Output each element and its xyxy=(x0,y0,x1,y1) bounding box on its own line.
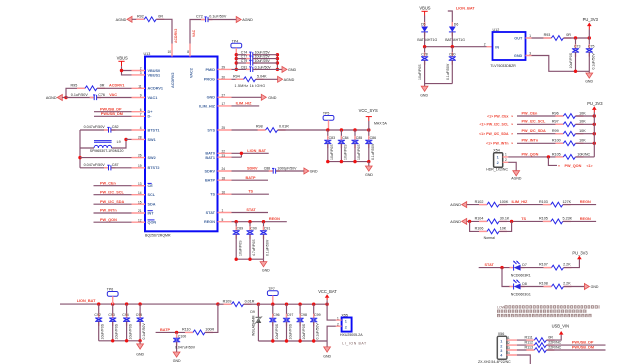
svg-text:<1> PW_CEx: <1> PW_CEx xyxy=(487,114,508,118)
svg-text:BTST2: BTST2 xyxy=(148,166,160,170)
svg-text:LOW: LOW xyxy=(497,306,506,310)
svg-text:1: 1 xyxy=(222,209,224,213)
capacitor C90 4.7uF/P0S xyxy=(246,222,256,260)
svg-text:R96: R96 xyxy=(552,111,559,115)
svg-text:AGND: AGND xyxy=(450,220,461,224)
net STAT (LED) xyxy=(479,263,510,269)
wire REGN cap bottom rail xyxy=(235,258,264,261)
svg-text:2: 2 xyxy=(500,344,502,348)
svg-text:<1> PW_I2C_SDA: <1> PW_I2C_SDA xyxy=(479,132,509,136)
svg-text:5: 5 xyxy=(222,218,224,222)
svg-text:6: 6 xyxy=(140,108,142,112)
svg-text:0.1uF/50V: 0.1uF/50V xyxy=(446,63,450,80)
svg-text:PU_3V3: PU_3V3 xyxy=(583,17,599,22)
svg-text:0R: 0R xyxy=(566,33,571,37)
capacitor C94 10uF/P0S xyxy=(122,304,132,341)
svg-text:R109: R109 xyxy=(223,299,232,303)
resistor R108 2.2K xyxy=(539,282,584,289)
svg-text:»: » xyxy=(511,123,513,127)
ground GND (SYS caps) xyxy=(365,162,373,177)
wire PMID cap bank verticals xyxy=(235,53,279,71)
svg-text:NCD0603G1: NCD0603G1 xyxy=(511,292,531,296)
svg-text:25: 25 xyxy=(222,126,226,130)
svg-text:0.01R: 0.01R xyxy=(279,124,289,128)
text frequency note xyxy=(235,84,266,88)
svg-text:GND: GND xyxy=(310,169,318,173)
svg-text:2: 2 xyxy=(508,341,510,345)
svg-text:BAT54HT1G: BAT54HT1G xyxy=(417,38,437,42)
diode D9 WSLADHNM xyxy=(250,304,262,341)
svg-text:28: 28 xyxy=(138,136,142,140)
svg-text:10K: 10K xyxy=(579,139,586,143)
svg-text:SDRV: SDRV xyxy=(205,169,216,173)
svg-text:PW_QON: PW_QON xyxy=(522,152,539,156)
svg-text:26: 26 xyxy=(138,154,142,158)
resistor R99 10K / net PW_I2C_SDA xyxy=(517,129,596,136)
capacitor C91 0.1uF/50V xyxy=(260,222,270,260)
svg-text:C95: C95 xyxy=(136,313,142,317)
svg-text:1000pF/50V: 1000pF/50V xyxy=(277,167,297,171)
svg-text:L9: L9 xyxy=(117,140,121,144)
capacitor C97 10uF/P0S xyxy=(283,304,293,341)
text note line 2 xyxy=(497,310,588,313)
IC U12 TLV76033DBZR xyxy=(490,28,531,68)
svg-text:30.1K: 30.1K xyxy=(500,217,510,221)
wire net ACDRV2 xyxy=(156,19,178,43)
svg-text:ZX-XH2.54-4P22/NC: ZX-XH2.54-4P22/NC xyxy=(478,360,511,364)
svg-text:X56: X56 xyxy=(498,332,505,336)
resistor R104 30.1K / net TS xyxy=(475,217,551,224)
svg-text:R103: R103 xyxy=(539,200,548,204)
svg-text:GND: GND xyxy=(173,359,181,363)
svg-text:C89: C89 xyxy=(237,227,243,231)
svg-text:LI_ION BAT: LI_ION BAT xyxy=(342,342,367,346)
IC U13 top pin stubs (pins 10, 8) xyxy=(167,44,190,57)
svg-text:10uF/P0S: 10uF/P0S xyxy=(238,240,242,256)
svg-text:SPM6530T-1R0M120: SPM6530T-1R0M120 xyxy=(90,149,124,153)
net PWUSB_DP xyxy=(94,108,132,112)
net PW_INTn xyxy=(94,209,132,213)
ground AGND (C72) xyxy=(236,17,253,23)
ground GND (D8) xyxy=(584,284,598,290)
svg-text:PU_3V3: PU_3V3 xyxy=(587,101,603,106)
svg-text:PWUSB_DM: PWUSB_DM xyxy=(101,112,123,116)
svg-text:VBUS0: VBUS0 xyxy=(148,69,161,73)
capacitor C98 10uF/P0S xyxy=(297,304,307,341)
svg-text:R104: R104 xyxy=(475,217,484,221)
svg-text:ILIM_HIZ: ILIM_HIZ xyxy=(236,102,253,106)
capacitor C92 10uF/P0S xyxy=(94,304,104,341)
svg-text:REGN: REGN xyxy=(580,217,591,221)
svg-text:TS: TS xyxy=(248,190,253,194)
svg-text:BAT54HT1G: BAT54HT1G xyxy=(445,38,465,42)
ground GND (C100) xyxy=(173,352,181,363)
svg-text:C72: C72 xyxy=(196,15,203,19)
svg-text:C98: C98 xyxy=(301,313,307,317)
svg-text:10uF/P0S: 10uF/P0S xyxy=(101,323,105,339)
svg-text:10K: 10K xyxy=(579,111,586,115)
svg-text:0R: 0R xyxy=(100,83,105,87)
svg-text:BATP: BATP xyxy=(160,328,171,332)
offpage PW_QON out xyxy=(548,157,592,168)
offpage PW_I2C_SCL xyxy=(480,123,514,127)
svg-text:24: 24 xyxy=(222,167,226,171)
inductor L9 SPM6530T-1R0M120 xyxy=(80,139,126,153)
net PW_I2C_SCL xyxy=(94,190,132,194)
ground GND (bat caps) xyxy=(323,341,331,359)
svg-text:10K/NC: 10K/NC xyxy=(577,152,590,156)
svg-text:1: 1 xyxy=(337,316,339,320)
svg-text:13: 13 xyxy=(138,182,142,186)
svg-text:U13: U13 xyxy=(144,52,151,56)
svg-text:R108: R108 xyxy=(539,282,548,286)
svg-text:PW_I2C_SDA: PW_I2C_SDA xyxy=(522,129,547,133)
svg-text:R97: R97 xyxy=(552,120,559,124)
svg-text:R110: R110 xyxy=(182,328,191,332)
svg-text:3: 3 xyxy=(508,346,510,350)
svg-text:GND: GND xyxy=(365,173,373,177)
IC U13 top pin names (rotated) xyxy=(171,68,193,88)
IC U13 left pin stubs xyxy=(132,71,146,223)
svg-text:9: 9 xyxy=(140,94,142,98)
capacitor C82 0.047uF/50V (BTST1) xyxy=(80,125,132,132)
svg-text:100K: 100K xyxy=(500,200,509,204)
svg-text:IN: IN xyxy=(495,45,499,49)
svg-text:C96: C96 xyxy=(273,313,279,317)
connector X56 ZX-XH2.54-4P22/NC xyxy=(478,332,517,364)
svg-text:PW_I2C_SDA: PW_I2C_SDA xyxy=(100,200,125,204)
svg-text:AGND: AGND xyxy=(46,96,57,100)
resistor R105 10K/NC / net PW_QON xyxy=(508,152,594,159)
svg-text:19: 19 xyxy=(138,164,142,168)
wire X55 pin2 xyxy=(327,326,336,341)
capacitor C99 0.1uF/50V xyxy=(310,304,320,341)
net LION_BAT (BAT pins) xyxy=(232,149,269,157)
svg-text:BATP: BATP xyxy=(246,176,257,180)
ground GND (U12) xyxy=(585,71,593,83)
svg-text:CE: CE xyxy=(148,184,154,188)
svg-text:TS: TS xyxy=(210,193,215,197)
svg-text:AGND: AGND xyxy=(116,18,127,22)
svg-text:C83: C83 xyxy=(329,136,335,140)
svg-text:C88: C88 xyxy=(264,167,270,171)
svg-text:0.047uF/50V: 0.047uF/50V xyxy=(175,346,196,350)
svg-text:10uF/P0S: 10uF/P0S xyxy=(275,323,279,339)
resistor R112 22R/NC / net PWUSB_DP xyxy=(517,341,606,348)
capacitor C79 10uF/25V xyxy=(236,59,277,66)
svg-text:10uF/P0S: 10uF/P0S xyxy=(129,323,133,339)
svg-text:D9: D9 xyxy=(250,310,255,314)
svg-text:C81: C81 xyxy=(241,65,247,69)
svg-text:0R: 0R xyxy=(158,15,163,19)
svg-text:R94: R94 xyxy=(233,75,240,79)
power VBUS (left) xyxy=(117,56,132,75)
svg-text:1: 1 xyxy=(529,34,531,38)
power VCC_SYS xyxy=(359,108,388,130)
svg-text:22: 22 xyxy=(222,149,226,153)
svg-text:AGND: AGND xyxy=(242,18,253,22)
net PW_CEn xyxy=(94,181,132,185)
svg-text:2: 2 xyxy=(337,322,339,326)
svg-text:C85: C85 xyxy=(356,136,362,140)
text note line 1 xyxy=(497,305,600,309)
svg-text:VAC1: VAC1 xyxy=(148,96,158,100)
svg-text:VCC_SYS: VCC_SYS xyxy=(359,108,378,113)
resistor R102 100K / net ILIM_HIZ xyxy=(475,200,551,207)
svg-text:R95: R95 xyxy=(71,83,78,87)
svg-text:C86: C86 xyxy=(370,136,376,140)
svg-text:C97: C97 xyxy=(287,313,293,317)
svg-text:0.1uF/50V: 0.1uF/50V xyxy=(592,53,596,70)
svg-text:AGND: AGND xyxy=(284,78,295,82)
resistor R94 5.04K (PROG) xyxy=(232,75,278,82)
svg-text:8: 8 xyxy=(187,50,189,54)
svg-text:MAX 5A: MAX 5A xyxy=(374,122,388,126)
svg-text:2: 2 xyxy=(140,67,142,71)
svg-text:SDRV: SDRV xyxy=(247,167,258,171)
svg-text:C92: C92 xyxy=(94,313,100,317)
svg-text:GND: GND xyxy=(288,68,297,72)
svg-text:GND: GND xyxy=(207,96,216,100)
ground AGND (R104 row) xyxy=(450,218,487,224)
capacitor C96 10uF/P0S xyxy=(269,304,279,341)
svg-text:0.1uF/50V: 0.1uF/50V xyxy=(266,239,270,256)
svg-text:QON: QON xyxy=(148,221,157,225)
svg-text:»: » xyxy=(511,142,513,146)
svg-text:R106: R106 xyxy=(475,227,484,231)
resistor R111 0R xyxy=(517,335,561,343)
svg-text:PW_QON: PW_QON xyxy=(565,164,582,168)
resistor R97 10K / net PW_I2C_SCL xyxy=(517,120,596,127)
svg-text:PW_CEn: PW_CEn xyxy=(522,111,539,115)
svg-text:SYS: SYS xyxy=(207,128,215,132)
test point TP5 xyxy=(323,112,334,130)
svg-text:1: 1 xyxy=(497,156,499,160)
svg-text:D8: D8 xyxy=(522,282,527,286)
connector X55 HXU25005-2A xyxy=(336,313,367,345)
offpage PW_I2C_SDA xyxy=(479,132,513,136)
svg-text:C82: C82 xyxy=(112,125,119,129)
svg-text:GND: GND xyxy=(514,54,523,58)
svg-text:HXU25005-2A: HXU25005-2A xyxy=(340,333,363,337)
svg-text:D5: D5 xyxy=(421,22,426,26)
capacitor C85 10uF/P0S xyxy=(351,130,362,162)
svg-text:PW_INTn: PW_INTn xyxy=(522,139,539,143)
wire SW1 xyxy=(124,138,131,141)
svg-text:SW2: SW2 xyxy=(148,156,156,160)
svg-text:C90: C90 xyxy=(250,227,256,231)
capacitor C77 10uF/25V xyxy=(236,55,277,62)
svg-text:2: 2 xyxy=(345,325,347,329)
ground AGND (top left) xyxy=(116,16,132,22)
power VCC_BAT xyxy=(318,289,337,304)
svg-text:C93: C93 xyxy=(108,313,114,317)
svg-text:C100: C100 xyxy=(178,334,186,338)
capacitor C100 0.047uF/50V xyxy=(173,332,196,352)
svg-text:HDR_1X2/NC: HDR_1X2/NC xyxy=(486,167,508,171)
svg-text:R111: R111 xyxy=(525,336,533,340)
ground AGND (left mid) xyxy=(46,95,68,101)
svg-text:ILIM_HIZ: ILIM_HIZ xyxy=(512,200,529,204)
svg-text:PW_INTn: PW_INTn xyxy=(100,209,117,213)
svg-text:GND: GND xyxy=(262,268,270,272)
svg-text:3: 3 xyxy=(140,71,142,75)
test point TP4 xyxy=(231,39,242,54)
svg-text:PW_QON: PW_QON xyxy=(100,218,117,222)
resistor R100 10K / net PW_INTn xyxy=(517,139,596,146)
svg-text:BAT0: BAT0 xyxy=(205,152,215,156)
offpage PW_CEx xyxy=(487,114,513,118)
svg-text:PU_3V3: PU_3V3 xyxy=(572,251,588,256)
svg-text:4: 4 xyxy=(140,126,142,130)
net STAT xyxy=(232,208,269,213)
svg-text:GND: GND xyxy=(323,355,331,359)
svg-text:10K: 10K xyxy=(500,227,507,231)
svg-text:OUT: OUT xyxy=(514,36,523,40)
power PU_3V3 (pullups) xyxy=(587,101,603,157)
svg-text:R105: R105 xyxy=(539,217,548,221)
svg-text:11: 11 xyxy=(138,84,142,88)
svg-text:23: 23 xyxy=(222,154,226,158)
svg-text:Normal: Normal xyxy=(484,236,496,240)
svg-text:STAT: STAT xyxy=(485,263,495,267)
LED D7 NCD0603R1 xyxy=(510,261,552,278)
svg-text:0.1uF/50V: 0.1uF/50V xyxy=(371,143,375,160)
capacitor C95 0.1uF/50V xyxy=(136,304,146,341)
svg-text:TLV76033DBZR: TLV76033DBZR xyxy=(490,64,516,68)
svg-text:10uF/P0S: 10uF/P0S xyxy=(569,52,573,68)
svg-text:22R/NC: 22R/NC xyxy=(548,345,561,349)
svg-text:<1> PW_I2C_SCL: <1> PW_I2C_SCL xyxy=(480,123,510,127)
svg-text:REGN: REGN xyxy=(580,200,591,204)
IC U13 right pin stubs xyxy=(218,69,232,221)
svg-text:10K: 10K xyxy=(579,120,586,124)
net PW_QON xyxy=(94,218,132,222)
svg-text:VAC: VAC xyxy=(109,93,117,97)
svg-text:C73: C73 xyxy=(574,45,580,49)
net LION_BAT rail (bottom) xyxy=(60,299,220,306)
svg-text:PWUSB_DM: PWUSB_DM xyxy=(572,346,594,350)
svg-text:PWUSB_DP: PWUSB_DP xyxy=(572,341,594,345)
ground GND (PMID) xyxy=(282,66,297,72)
svg-text:R93: R93 xyxy=(544,33,551,37)
net ILIM_HIZ xyxy=(232,102,260,106)
resistor R106 10K xyxy=(470,221,512,233)
capacitor C73 10uF/P0S xyxy=(569,38,580,71)
svg-text:0.1uF/50V: 0.1uF/50V xyxy=(71,93,89,97)
svg-text:»: » xyxy=(511,132,513,136)
IC U13 BQ25672RQMR body xyxy=(144,52,218,238)
IC U13 left pin names xyxy=(148,69,164,225)
net TS xyxy=(232,190,269,195)
svg-text:0.047uF/50V: 0.047uF/50V xyxy=(84,125,106,129)
wire VCC_BAT rail xyxy=(258,303,328,306)
svg-text:R105: R105 xyxy=(552,152,561,156)
resistor R93 0R xyxy=(532,33,592,40)
svg-text:VCC_BAT: VCC_BAT xyxy=(318,289,337,294)
LED D8 NCD0603G1 xyxy=(502,268,552,297)
svg-text:15: 15 xyxy=(138,200,142,204)
svg-text:»: » xyxy=(511,114,513,118)
svg-text:17: 17 xyxy=(222,102,226,106)
capacitor C87 0.047uF/50V (BTST2) xyxy=(80,163,132,170)
svg-text:0.1uF/50V: 0.1uF/50V xyxy=(209,15,227,19)
svg-text:INT: INT xyxy=(148,211,155,215)
svg-text:VBUS1: VBUS1 xyxy=(148,73,161,77)
text Normal xyxy=(484,236,496,240)
capacitor C81 0.1uF/50V (PMID row) xyxy=(232,65,283,72)
power VBUS (top right) xyxy=(419,6,430,27)
offpage PW_INTn xyxy=(486,142,513,146)
svg-text:16: 16 xyxy=(222,190,226,194)
resistor R98 0.01R (SYS) xyxy=(232,124,371,132)
svg-text:LION_BAT: LION_BAT xyxy=(456,7,475,11)
net BATP xyxy=(232,176,269,180)
svg-text:C99: C99 xyxy=(314,313,320,317)
svg-text:1: 1 xyxy=(500,339,502,343)
svg-text:PW_I2C_SCL: PW_I2C_SCL xyxy=(522,120,547,124)
ground GND (C78/C80) xyxy=(420,84,452,98)
svg-text:X54: X54 xyxy=(493,149,500,153)
svg-text:ACDRV2: ACDRV2 xyxy=(171,72,175,88)
wire U12 input rail xyxy=(423,43,493,49)
capacitor C80 0.1uF/50V xyxy=(446,47,456,84)
svg-text:R102: R102 xyxy=(475,200,484,204)
svg-text:1.5MHz 1k IOHG: 1.5MHz 1k IOHG xyxy=(235,84,266,88)
capacitor C83 10uF/P0S xyxy=(324,130,335,162)
svg-text:C78: C78 xyxy=(421,53,427,57)
resistor R95 0R / net ACDRV1 xyxy=(66,83,132,97)
svg-text:PW_I2C_SCL: PW_I2C_SCL xyxy=(100,190,125,194)
net LION_BAT (top right) xyxy=(448,7,475,27)
resistor R103 127K / net REGN xyxy=(539,200,596,207)
svg-text:R112: R112 xyxy=(525,341,534,345)
svg-text:29: 29 xyxy=(222,66,226,70)
resistor R105b 5.23K / net REGN xyxy=(539,217,596,224)
svg-text:R107: R107 xyxy=(539,263,548,267)
svg-text:10uF/P0S: 10uF/P0S xyxy=(418,64,422,80)
svg-text:22R/NC: 22R/NC xyxy=(548,341,561,345)
capacitor C74 10uF/25V xyxy=(236,51,277,58)
capacitor C86 0.1uF/50V xyxy=(365,130,376,162)
ground AGND (PROG) xyxy=(278,76,295,82)
svg-text:5.23K: 5.23K xyxy=(563,217,573,221)
svg-text:R98: R98 xyxy=(256,124,263,128)
svg-text:VAC: VAC xyxy=(192,29,196,37)
svg-text:VAC2: VAC2 xyxy=(189,68,193,78)
svg-text:ACDRV1: ACDRV1 xyxy=(109,84,125,88)
svg-text:LION_BAT: LION_BAT xyxy=(77,299,96,303)
resistor R107 2.2K xyxy=(539,259,579,270)
svg-text:VBUS: VBUS xyxy=(419,6,430,11)
svg-text:PW_CEn: PW_CEn xyxy=(100,181,117,185)
svg-text:USB_VIN: USB_VIN xyxy=(552,324,570,329)
wire bat-left cap bottom rail xyxy=(99,339,142,342)
svg-text:10uF/P0S: 10uF/P0S xyxy=(330,144,334,160)
svg-text:10K: 10K xyxy=(579,129,586,133)
wire U12 GND rail xyxy=(532,56,590,74)
svg-text:1: 1 xyxy=(505,153,507,157)
svg-text:NCD0603R1: NCD0603R1 xyxy=(511,273,531,277)
svg-text:REGN: REGN xyxy=(204,220,215,224)
svg-text:PMID: PMID xyxy=(206,68,216,72)
svg-text:0R: 0R xyxy=(548,336,553,340)
svg-text:C75: C75 xyxy=(588,45,594,49)
svg-text:C94: C94 xyxy=(122,313,128,317)
svg-text:10uF/P0S: 10uF/P0S xyxy=(115,323,119,339)
svg-text:«: « xyxy=(558,164,560,168)
capacitor C72 0.1uF/50V xyxy=(196,15,236,22)
